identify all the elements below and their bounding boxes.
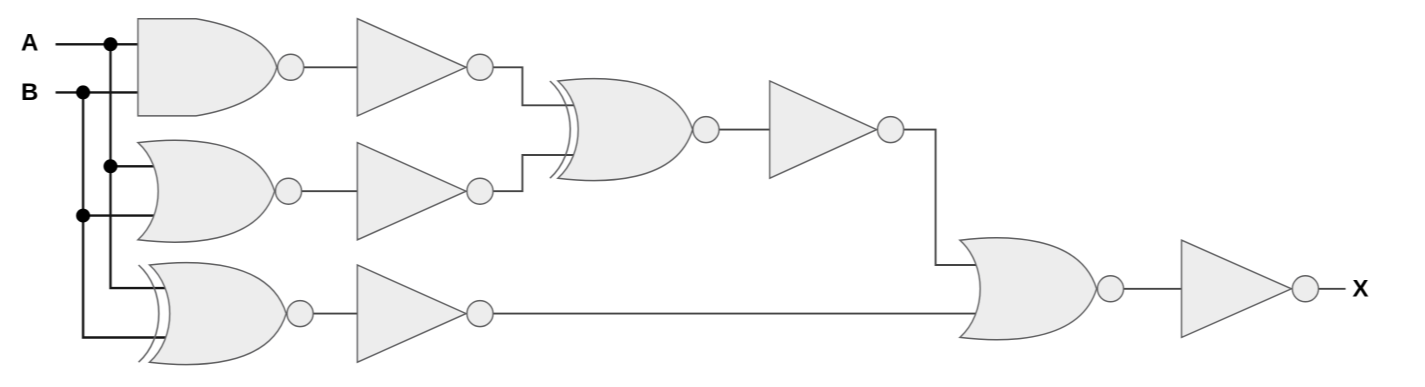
inverter U9 bubble: [467, 301, 493, 327]
wire B input: [56, 91, 142, 93]
XNOR gate U5 output bubble: [287, 301, 313, 327]
NOR gate U8 output bubble: [1098, 276, 1124, 302]
NAND gate U1 body: [138, 19, 277, 116]
inverter U10 triangle: [1182, 240, 1292, 337]
wire inverter U7 out to NOR U8 top input: [891, 130, 978, 265]
junction dot A branch: [104, 159, 118, 173]
XNOR gate U5 body: [150, 263, 287, 365]
inverter U10 bubble: [1292, 276, 1318, 302]
inverter U4 bubble: [467, 178, 493, 204]
inverter U7 bubble: [878, 117, 904, 143]
junction dot B branch: [76, 209, 90, 223]
wire inverter U2 out to XNOR U6 top input: [480, 67, 576, 105]
wire B branch to NOR U3: [83, 214, 156, 216]
wire A input: [56, 43, 142, 45]
wire XNOR U5 out to inverter U9: [300, 313, 360, 315]
wire XNOR U6 out to inverter U7: [706, 129, 772, 131]
svg-text:B: B: [21, 79, 38, 106]
wire B vertical bus: [83, 92, 168, 337]
wire inverter U9 out to NOR U8 bottom input: [480, 313, 978, 315]
junction dot B on input wire: [76, 85, 90, 99]
XNOR gate U6 body: [558, 79, 693, 181]
wire A branch to NOR U3: [111, 165, 157, 167]
inverter U9 triangle: [357, 265, 466, 362]
svg-text:A: A: [21, 30, 38, 57]
inverter U7 triangle: [770, 81, 877, 178]
XNOR gate U6 leading arc: [550, 81, 570, 178]
NAND gate U1 output bubble: [278, 54, 304, 80]
NOR gate U3 output bubble: [276, 178, 302, 204]
wire NAND U1 out to inverter U2: [290, 66, 360, 68]
XNOR gate U5 leading arc: [139, 265, 159, 362]
svg-text:X: X: [1353, 276, 1369, 303]
inverter U2 bubble: [467, 54, 493, 80]
wire NOR U8 out to inverter U10: [1111, 288, 1185, 290]
junction dot A on input wire: [104, 37, 118, 51]
wire inverter U10 out to X: [1305, 288, 1345, 290]
inverter U4 triangle: [357, 143, 466, 240]
NOR gate U3 body: [138, 140, 275, 242]
wire A vertical bus: [111, 44, 169, 288]
wire inverter U4 out to XNOR U6 bottom input: [480, 155, 576, 191]
wire NOR U3 out to inverter U4: [288, 190, 360, 192]
XNOR gate U6 output bubble: [693, 117, 719, 143]
NOR gate U8 body: [960, 238, 1097, 340]
inverter U2 triangle: [357, 19, 466, 116]
